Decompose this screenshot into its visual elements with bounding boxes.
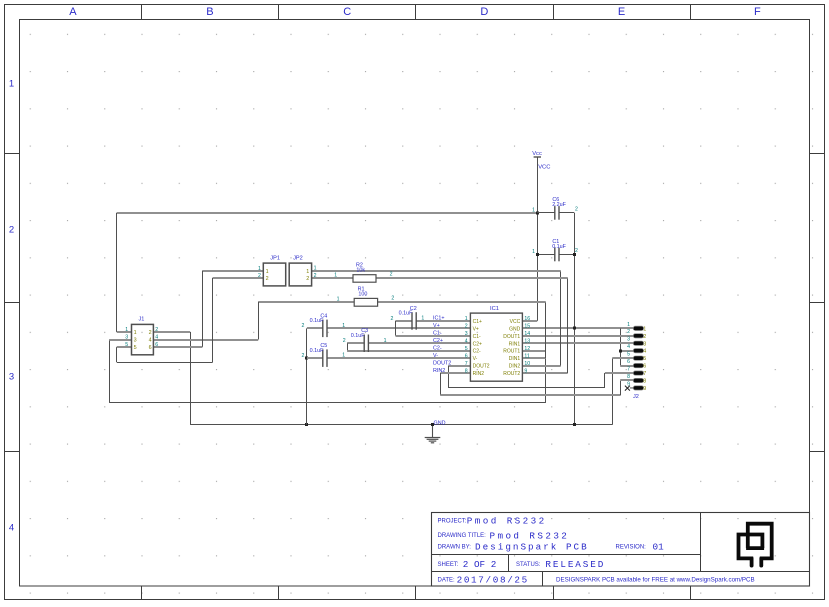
- title block date row and note: [438, 574, 755, 585]
- wire J1 pin 4 vertical: [258, 302, 260, 340]
- svg-text:DRAWING TITLE:: DRAWING TITLE:: [438, 533, 487, 539]
- op-amp transceiver IC1: [465, 306, 531, 381]
- wire node C2- to IC1 pin 5: [347, 350, 470, 352]
- svg-text:5: 5: [643, 356, 646, 362]
- no-connect X on J2 pad 9: [625, 386, 633, 391]
- wire GND bottom horizontal: [190, 424, 612, 426]
- wire J1 pin 5 return horizontal: [117, 362, 213, 364]
- svg-text:9: 9: [643, 386, 646, 392]
- svg-text:DesignSpark PCB: DesignSpark PCB: [475, 541, 589, 552]
- svg-text:1: 1: [9, 79, 14, 90]
- wire IC1 pin 10 DIN2 stub: [522, 365, 560, 367]
- wire J1 pin 6 stub: [153, 346, 202, 348]
- svg-text:STATUS:: STATUS:: [516, 562, 541, 568]
- svg-text:6: 6: [149, 345, 152, 351]
- svg-text:0.1uF: 0.1uF: [310, 318, 324, 324]
- wire J2 pad 6 lead: [620, 365, 633, 367]
- wire C3 pin 2 lead: [347, 342, 364, 344]
- wire IC1 pin 15 GND to J2 pad 1: [522, 327, 633, 329]
- svg-text:16: 16: [524, 316, 530, 322]
- svg-text:2: 2: [149, 330, 152, 336]
- svg-text:REVISION:: REVISION:: [616, 544, 647, 550]
- svg-text:7: 7: [465, 361, 468, 367]
- svg-text:RIN2: RIN2: [433, 368, 445, 374]
- wire J1 pin 3 stub: [109, 339, 131, 341]
- node C1-: [433, 331, 442, 337]
- svg-text:C1+: C1+: [473, 319, 482, 325]
- wire C2 vertical to C1- row: [395, 321, 397, 336]
- DesignSpark logo: [739, 524, 772, 566]
- svg-text:GND: GND: [434, 420, 446, 426]
- svg-text:DRAWN BY:: DRAWN BY:: [438, 544, 472, 550]
- svg-text:1: 1: [643, 326, 646, 332]
- svg-text:2: 2: [391, 316, 394, 322]
- svg-text:V+: V+: [473, 326, 479, 332]
- resistor R2 10k: [334, 262, 392, 282]
- wire C2 pin 1 to IC1 pin 1 C1+: [416, 320, 470, 322]
- svg-text:V-: V-: [433, 353, 438, 359]
- svg-text:DIN2: DIN2: [509, 364, 521, 370]
- svg-text:100: 100: [358, 292, 367, 298]
- svg-text:5: 5: [627, 352, 630, 358]
- svg-text:1: 1: [306, 269, 309, 275]
- svg-text:A: A: [69, 6, 77, 18]
- wire R2 pin 2 lead: [376, 277, 568, 279]
- J2 pad 5: [633, 356, 643, 360]
- svg-text:DIN1: DIN1: [509, 356, 521, 362]
- svg-text:Pmod RS232: Pmod RS232: [490, 530, 570, 541]
- svg-text:7: 7: [643, 371, 646, 377]
- svg-text:Pmod RS232: Pmod RS232: [467, 516, 547, 527]
- junction GND at C1 pin 2: [573, 253, 576, 256]
- svg-text:3: 3: [9, 372, 14, 383]
- capacitor C6 2.2uF: [532, 197, 578, 220]
- svg-text:2: 2: [302, 323, 305, 329]
- svg-text:2: 2: [266, 276, 269, 282]
- wire RIN2 horizontal: [440, 394, 620, 396]
- svg-text:RELEASED: RELEASED: [545, 559, 605, 570]
- wire node C1- to IC1 pin 3: [396, 335, 471, 337]
- wire ROUT2 vertical: [567, 278, 569, 373]
- svg-text:2: 2: [306, 276, 309, 282]
- svg-text:SHEET:: SHEET:: [438, 562, 459, 568]
- wire IC1 pin 8 RIN2 stub: [440, 372, 470, 374]
- wire J1 pin 2 stub: [153, 331, 190, 333]
- wire J2 pad 8 vertical: [620, 381, 622, 396]
- jumper JP1: [258, 255, 286, 286]
- wire J1 pin 4 stub: [153, 339, 258, 341]
- svg-text:1: 1: [337, 296, 340, 302]
- wire C2 pin 2 lead: [396, 320, 413, 322]
- wire R1 pin 1 lead: [258, 301, 354, 303]
- wire JP1 pin 2 vertical: [212, 278, 214, 362]
- J2 pad 7: [633, 371, 643, 375]
- svg-text:10: 10: [524, 361, 530, 367]
- svg-text:1: 1: [258, 266, 261, 272]
- svg-text:V+: V+: [433, 323, 440, 329]
- svg-text:C2+: C2+: [473, 341, 482, 347]
- svg-text:GND: GND: [509, 326, 521, 332]
- svg-text:2017/08/25: 2017/08/25: [457, 574, 529, 585]
- wire C4/C5 left vertical to GND: [306, 328, 308, 424]
- svg-text:3: 3: [643, 341, 646, 347]
- svg-text:6: 6: [155, 342, 158, 348]
- svg-text:6: 6: [643, 364, 646, 370]
- wire J2 pad 4 lead: [620, 350, 633, 352]
- svg-text:1: 1: [532, 249, 535, 255]
- wire J1 pin 1 vertical to VCC rail: [116, 213, 118, 332]
- J2 pad 8: [633, 378, 643, 382]
- svg-text:3: 3: [134, 338, 137, 344]
- svg-text:2: 2: [643, 334, 646, 340]
- svg-text:4: 4: [627, 344, 630, 350]
- J2 pad 3: [633, 341, 643, 345]
- node RIN2: [433, 368, 445, 374]
- svg-text:2: 2: [575, 207, 578, 213]
- wire J2 pad 7 lead: [605, 372, 634, 374]
- wire IC1 pin 13 RIN1 to J2 pad 3: [522, 342, 633, 344]
- capacitor C5 0.1uF: [302, 343, 346, 367]
- capacitor C2 0.1uF: [391, 306, 425, 330]
- frame column letters A-F: [69, 6, 761, 18]
- svg-text:4: 4: [9, 523, 14, 534]
- svg-text:F: F: [754, 6, 761, 18]
- title block: [432, 513, 810, 587]
- svg-text:1: 1: [342, 323, 345, 329]
- jumper JP2: [289, 255, 316, 286]
- frame row numbers 1-4: [9, 79, 14, 534]
- svg-text:0.1uF: 0.1uF: [310, 348, 324, 354]
- capacitor C4 0.1uF: [302, 313, 346, 337]
- svg-text:2: 2: [465, 324, 468, 330]
- wire J1 pin 2 vertical to GND: [190, 332, 192, 425]
- wire IC1 pin 11 DIN1 stub: [522, 357, 545, 359]
- svg-text:2: 2: [155, 327, 158, 333]
- svg-text:C2-: C2-: [473, 349, 481, 355]
- wire C4 pin 2 lead: [307, 327, 323, 329]
- junction GND bottom at C4/C5 branch: [305, 423, 308, 426]
- wire DOUT2 horizontal: [449, 387, 605, 389]
- node C2+: [433, 338, 443, 344]
- node DOUT2: [433, 360, 451, 366]
- svg-text:6: 6: [627, 359, 630, 365]
- junction GND vertical at pin 15 row: [573, 327, 576, 330]
- wire JP1 pin 1 vertical: [202, 271, 204, 347]
- frame row dividers: [5, 154, 825, 452]
- svg-text:2 OF 2: 2 OF 2: [463, 559, 496, 570]
- node V+: [433, 323, 440, 329]
- connector J1: [125, 316, 158, 355]
- svg-text:JP2: JP2: [293, 255, 303, 261]
- wire IC1 pin 9 ROUT2 stub: [522, 372, 567, 374]
- svg-text:3: 3: [465, 331, 468, 337]
- svg-text:6: 6: [465, 353, 468, 359]
- svg-text:VCC: VCC: [510, 319, 521, 325]
- wire C6 pin 1 lead: [537, 212, 555, 214]
- wire IC1 pin 16 stub: [522, 320, 537, 322]
- svg-text:JP1: JP1: [270, 255, 280, 261]
- svg-text:2: 2: [314, 273, 317, 279]
- wire J1 pin 3 vertical: [109, 340, 111, 403]
- wire RIN2 vertical: [440, 373, 442, 395]
- svg-text:IC1: IC1: [490, 306, 499, 312]
- wire C3 pin 1 to IC1 pin 4 C2+: [369, 342, 471, 344]
- wire IC1 pin 12 ROUT1 stub: [522, 350, 545, 352]
- svg-text:C2+: C2+: [433, 338, 443, 344]
- svg-text:1: 1: [134, 330, 137, 336]
- svg-text:13: 13: [524, 339, 530, 345]
- svg-text:14: 14: [524, 331, 530, 337]
- wire C3 vertical to C2- row: [347, 343, 349, 350]
- capacitor C3 0.1uF: [343, 328, 387, 352]
- node C2-: [433, 346, 442, 352]
- svg-text:PROJECT:: PROJECT:: [438, 518, 467, 524]
- J2 pad 1: [633, 326, 643, 330]
- svg-text:1: 1: [532, 208, 535, 214]
- svg-text:5: 5: [134, 345, 137, 351]
- svg-text:12: 12: [524, 346, 530, 352]
- svg-text:2: 2: [390, 272, 393, 278]
- svg-text:1: 1: [266, 269, 269, 275]
- wire ROUT1 horizontal to J1 pin 3: [109, 402, 545, 404]
- svg-text:01: 01: [653, 541, 665, 552]
- svg-text:4: 4: [155, 334, 158, 340]
- wire IC1 pin 7 DOUT2 stub: [449, 365, 471, 367]
- svg-text:DESIGNSPARK PCB available for: DESIGNSPARK PCB available for FREE at ww…: [556, 576, 755, 583]
- wire J2 pad 5 lead: [612, 357, 633, 359]
- wire J2 pad 7 vertical: [604, 373, 606, 388]
- wire GND branch vertical at J2: [620, 328, 622, 365]
- svg-text:RIN2: RIN2: [473, 371, 485, 377]
- svg-text:C1-: C1-: [473, 334, 481, 340]
- wire R2 pin 1 lead: [312, 277, 353, 279]
- J2 pad 9: [633, 386, 643, 390]
- svg-text:1: 1: [465, 316, 468, 322]
- svg-text:1: 1: [342, 353, 345, 359]
- svg-text:2: 2: [391, 296, 394, 302]
- wire J2 pad 8 lead: [620, 379, 633, 381]
- svg-text:5: 5: [125, 342, 128, 348]
- junction GND at J2 pad 4: [619, 350, 622, 353]
- wire C1 pin 2 lead: [559, 254, 574, 256]
- wire IC1 pin 14 DOUT1 to J2 pad 2: [522, 335, 633, 337]
- svg-text:1: 1: [421, 316, 424, 322]
- J2 pad 2: [633, 334, 643, 338]
- svg-text:1: 1: [334, 272, 337, 278]
- svg-text:4: 4: [149, 338, 152, 344]
- power symbol Vcc: [532, 151, 550, 170]
- connector J2: [627, 322, 646, 400]
- frame column dividers: [142, 5, 691, 600]
- ground symbol GND: [425, 420, 446, 443]
- svg-text:2: 2: [258, 273, 261, 279]
- wire J1 pin 1 stub: [117, 331, 132, 333]
- svg-text:VCC: VCC: [538, 165, 550, 171]
- wire J2 pad 5 vertical to GND: [612, 358, 614, 425]
- svg-text:D: D: [480, 6, 488, 18]
- svg-text:J2: J2: [633, 394, 639, 400]
- wire ROUT1 vertical: [545, 351, 547, 403]
- svg-text:2: 2: [343, 338, 346, 344]
- svg-text:10k: 10k: [356, 267, 365, 273]
- junction C5 pin 2 at left vertical: [305, 357, 308, 360]
- svg-text:3: 3: [627, 337, 630, 343]
- wire C5 pin 1 to IC1 pin 6 V-: [327, 357, 470, 359]
- svg-text:2.2uF: 2.2uF: [552, 202, 566, 208]
- title block project row: [438, 516, 547, 527]
- title block drawing title row: [438, 530, 570, 541]
- svg-text:9: 9: [524, 368, 527, 374]
- svg-text:C1-: C1-: [433, 331, 442, 337]
- wire C6 pin 2 lead: [559, 212, 574, 214]
- wire DIN1 vertical to R1: [545, 302, 547, 358]
- svg-text:15: 15: [524, 324, 530, 330]
- svg-text:2: 2: [9, 225, 14, 236]
- wire VCC vertical from Vcc symbol to IC1 pin 16: [537, 157, 539, 321]
- svg-text:0.1uF: 0.1uF: [399, 311, 413, 317]
- svg-text:C: C: [343, 6, 351, 18]
- svg-text:1: 1: [627, 322, 630, 328]
- svg-text:8: 8: [627, 374, 630, 380]
- wire JP2 pin 1 to DIN2 horizontal: [312, 270, 561, 272]
- svg-text:E: E: [618, 6, 625, 18]
- svg-text:DOUT1: DOUT1: [503, 334, 520, 340]
- title block drawn-by and revision row: [438, 541, 665, 552]
- J2 pad 4: [633, 349, 643, 353]
- svg-text:DATE:: DATE:: [438, 577, 456, 583]
- wire GND vertical right of capacitors: [574, 213, 576, 425]
- svg-text:0.1uF: 0.1uF: [351, 333, 365, 339]
- title block sheet and status row: [438, 559, 606, 570]
- wire J1 pin 5 stub: [117, 346, 132, 348]
- svg-text:3: 3: [125, 334, 128, 340]
- wire VCC rail top horizontal: [117, 212, 538, 214]
- svg-text:8: 8: [643, 379, 646, 385]
- junction VCC at C6 pin 1: [536, 212, 539, 215]
- svg-text:2: 2: [627, 329, 630, 335]
- svg-text:DOUT2: DOUT2: [473, 364, 490, 370]
- svg-text:C2-: C2-: [433, 346, 442, 352]
- wire DIN2 vertical: [560, 271, 562, 366]
- svg-text:IC1+: IC1+: [433, 316, 445, 322]
- svg-text:V-: V-: [473, 356, 478, 362]
- svg-text:1: 1: [125, 327, 128, 333]
- svg-text:4: 4: [465, 339, 468, 345]
- J2 pad 6: [633, 363, 643, 367]
- resistor R1 100: [337, 287, 395, 306]
- svg-text:5: 5: [465, 346, 468, 352]
- svg-text:0.1uF: 0.1uF: [552, 244, 566, 250]
- node IC1+: [433, 316, 445, 322]
- wire R1 pin 2 lead: [378, 301, 546, 303]
- svg-text:1: 1: [384, 338, 387, 344]
- svg-text:2: 2: [302, 353, 305, 359]
- svg-text:4: 4: [643, 349, 646, 355]
- capacitor C1 0.1uF: [532, 239, 578, 261]
- svg-text:DOUT2: DOUT2: [433, 360, 451, 366]
- svg-text:B: B: [206, 6, 213, 18]
- wire DOUT2 vertical: [448, 366, 450, 388]
- svg-text:ROUT2: ROUT2: [503, 371, 520, 377]
- svg-text:8: 8: [465, 368, 468, 374]
- svg-text:11: 11: [524, 353, 529, 359]
- wire C1 pin 1 lead: [537, 254, 555, 256]
- svg-text:2: 2: [575, 248, 578, 254]
- wire JP1 pin 2 stub: [213, 277, 264, 279]
- svg-text:1: 1: [314, 266, 317, 272]
- svg-text:RIN1: RIN1: [509, 341, 521, 347]
- svg-text:ROUT1: ROUT1: [503, 349, 520, 355]
- wire JP1 pin 1 stub: [202, 270, 263, 272]
- junction GND bottom at capacitor branch: [573, 423, 576, 426]
- svg-text:J1: J1: [139, 316, 145, 322]
- junction VCC at C1 pin 1: [536, 253, 539, 256]
- wire C5 pin 2 lead: [307, 357, 323, 359]
- node V-: [433, 353, 438, 359]
- svg-text:7: 7: [627, 366, 630, 372]
- wire C4 pin 1 to IC1 pin 2 V+: [327, 327, 470, 329]
- wire J1 pin 5 vertical: [116, 347, 118, 362]
